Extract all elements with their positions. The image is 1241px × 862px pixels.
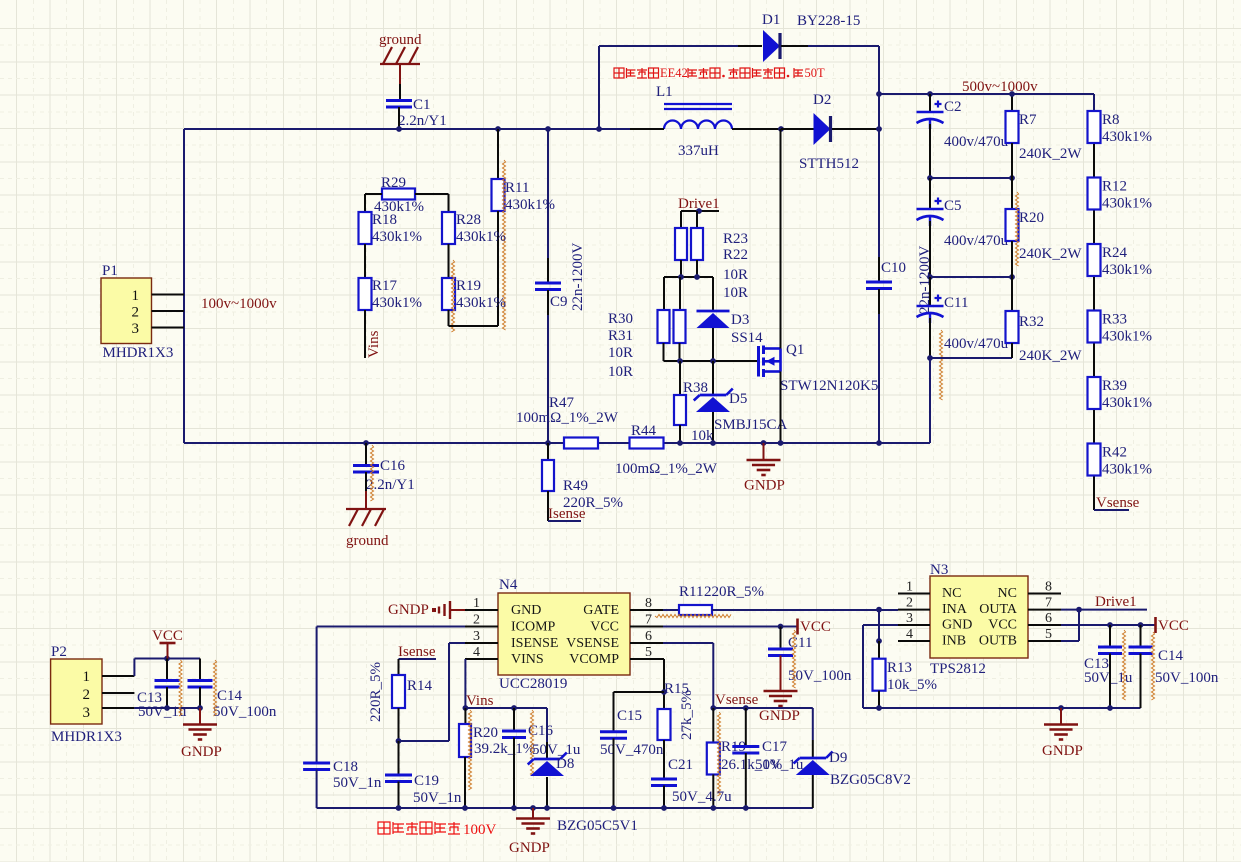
svg-text:1: 1	[473, 596, 480, 611]
svg-text:10R: 10R	[608, 345, 633, 361]
wire 500v bus	[879, 93, 1094, 95]
junction	[1009, 175, 1015, 181]
svg-text:R17: R17	[372, 278, 398, 294]
wire R7 top stub	[1011, 94, 1013, 111]
wire C1 bottom stem	[398, 107, 400, 129]
error squiggle	[717, 712, 720, 796]
resistor R11 (ladder)	[492, 179, 505, 211]
wire tie C5-R20	[930, 276, 1012, 278]
wire GNDP stem switch	[763, 443, 765, 460]
svg-text:GNDP: GNDP	[759, 708, 800, 724]
wire R24 to next	[1093, 277, 1095, 311]
junction	[661, 805, 667, 811]
svg-text:C11: C11	[788, 635, 812, 651]
wire N3 VCC rail	[1061, 624, 1155, 626]
resistor R13	[873, 659, 886, 691]
wire GNDP stem P2	[199, 708, 201, 724]
resistor R23	[675, 228, 687, 260]
capacitor C13 (P2)	[155, 681, 180, 688]
svg-text:R8: R8	[1102, 112, 1120, 128]
wire R11 top stem	[497, 129, 499, 179]
svg-text:Vsense: Vsense	[1096, 495, 1140, 511]
wire D1 to output riser	[808, 45, 879, 47]
svg-text:VCC: VCC	[152, 628, 183, 644]
capacitor C15	[600, 732, 627, 739]
wire R7 bottom stub	[1011, 143, 1013, 178]
error squiggle	[1151, 632, 1154, 700]
junction	[927, 355, 933, 361]
capacitor C16	[353, 466, 379, 473]
wire ICOMP run	[317, 626, 465, 628]
svg-text:ISENSE: ISENSE	[511, 636, 558, 651]
diode D5 TVS	[694, 389, 733, 413]
pin N3.8	[1028, 593, 1061, 595]
capacitor C10	[866, 282, 892, 289]
wire C11 bottom stem	[929, 318, 931, 358]
wire net input top bus	[184, 128, 630, 130]
svg-text:R7: R7	[1019, 112, 1037, 128]
pin P1.2	[152, 310, 185, 312]
ground symbol top	[380, 47, 420, 64]
resistor R17	[359, 278, 372, 310]
junction	[710, 440, 716, 446]
svg-text:2.2n/Y1: 2.2n/Y1	[398, 113, 447, 129]
wire INA-INB tie	[878, 610, 880, 641]
wire GNDP stem N3	[1060, 708, 1062, 724]
wire column return	[929, 358, 931, 443]
wire C14 bottom stem	[199, 687, 201, 708]
wire R22 bottom stub	[696, 260, 698, 277]
svg-text:Vins: Vins	[466, 693, 494, 709]
svg-text:430k1%: 430k1%	[1102, 262, 1152, 278]
error squiggle	[502, 160, 505, 330]
svg-text:GND: GND	[942, 618, 972, 633]
ground GNDP switch	[747, 460, 781, 475]
wire VSENSE run	[663, 642, 713, 644]
svg-text:R12: R12	[1102, 179, 1127, 195]
svg-text:VCC: VCC	[800, 619, 831, 635]
svg-text:50V_100n: 50V_100n	[788, 668, 852, 684]
wire GNDP stem bottom	[532, 808, 534, 818]
wire Vsense stub right	[1094, 509, 1129, 511]
svg-text:50V_470n: 50V_470n	[600, 742, 664, 758]
note text chinese top	[614, 66, 825, 80]
svg-text:R31: R31	[608, 328, 633, 344]
svg-text:C21: C21	[668, 757, 693, 773]
wire ground stem red bottom	[365, 491, 367, 509]
wire P2.1 riser	[133, 659, 135, 677]
wire D5 bottom stub	[712, 412, 714, 443]
svg-text:C14: C14	[217, 688, 243, 704]
error squiggle	[179, 660, 182, 716]
svg-text:4: 4	[906, 627, 913, 642]
svg-text:1: 1	[906, 580, 913, 595]
svg-text:GNDP: GNDP	[181, 744, 222, 760]
resistor R47	[564, 438, 598, 449]
svg-text:NC: NC	[942, 586, 961, 601]
svg-text:R30: R30	[608, 311, 633, 327]
error squiggle	[530, 710, 533, 776]
wire D3 top stub	[712, 277, 714, 310]
resistor R20 (Vins)	[459, 724, 471, 757]
resistor R33	[1088, 311, 1101, 343]
pin D2 anode	[781, 128, 814, 130]
junction	[1058, 705, 1064, 711]
wire VSENSE drop	[712, 643, 714, 708]
svg-text:P1: P1	[102, 263, 118, 279]
wire R39 to next	[1093, 410, 1095, 444]
svg-text:EE42: EE42	[660, 66, 688, 80]
svg-text:10R: 10R	[608, 364, 633, 380]
junction	[1076, 607, 1082, 613]
wire ISENSE run	[449, 642, 465, 644]
svg-text:VCOMP: VCOMP	[569, 652, 619, 667]
error squiggle	[451, 260, 454, 332]
svg-text:VCC: VCC	[1158, 618, 1189, 634]
error squiggle	[1015, 192, 1018, 266]
wire R12 to next	[1093, 211, 1095, 245]
op-amp U-N4 UCC28019 body	[498, 593, 630, 675]
wire R42 bottom stub	[1093, 477, 1095, 511]
resistor R14	[392, 675, 405, 708]
pin P1.1	[152, 294, 185, 296]
svg-text:Q1: Q1	[786, 342, 804, 358]
wire R18 top stub	[364, 194, 366, 212]
svg-text:R22: R22	[723, 247, 748, 263]
junction	[778, 624, 784, 630]
wire R14 top stub	[398, 659, 400, 675]
resistor R49	[542, 460, 554, 491]
wire drive mid tie	[664, 276, 713, 278]
svg-text:P2: P2	[51, 644, 67, 660]
wire R20 top stub	[464, 708, 466, 724]
svg-text:TPS2812: TPS2812	[930, 661, 986, 677]
resistor R28	[442, 212, 455, 244]
pin C10 bottom	[878, 289, 880, 314]
wire Drive1 top	[681, 210, 719, 212]
inductor L1 core	[664, 104, 732, 109]
svg-text:100V: 100V	[463, 822, 497, 838]
pin D8 top	[546, 742, 548, 759]
wire tie C11-R32	[930, 357, 1012, 359]
svg-text:337uH: 337uH	[678, 143, 719, 159]
svg-text:C2: C2	[944, 99, 962, 115]
junction	[545, 126, 551, 132]
wire R13 top stub	[878, 641, 880, 659]
wire Isense stub	[548, 520, 581, 522]
svg-text:2: 2	[906, 596, 913, 611]
power VCC bar N4	[796, 619, 799, 635]
svg-text:R29: R29	[381, 175, 406, 191]
resistor R7	[1006, 111, 1019, 143]
svg-text:C5: C5	[944, 198, 962, 214]
svg-text:430k1%: 430k1%	[1102, 196, 1152, 212]
wire R29 left arm	[365, 193, 382, 195]
junction	[530, 805, 536, 811]
wire OUTB run	[1061, 640, 1079, 642]
pin N3.1	[898, 593, 930, 595]
svg-text:100mΩ_1%_2W: 100mΩ_1%_2W	[615, 461, 718, 477]
svg-text:Drive1: Drive1	[1095, 594, 1137, 610]
pin N4.8	[630, 609, 663, 611]
pin D1 anode	[738, 45, 762, 47]
wire R22 top stub	[696, 211, 698, 228]
svg-text:BZG05C5V1: BZG05C5V1	[557, 818, 638, 834]
svg-text:UCC28019: UCC28019	[499, 676, 567, 692]
svg-text:VCC: VCC	[988, 618, 1017, 633]
svg-text:220R_5%: 220R_5%	[704, 584, 764, 600]
svg-text:430k1%: 430k1%	[1102, 329, 1152, 345]
error squiggle	[213, 660, 216, 716]
svg-text:D3: D3	[731, 312, 749, 328]
wire OUTA-OUTB tie	[1078, 610, 1080, 641]
pin N4.4	[465, 658, 498, 660]
svg-text:SMBJ15CA: SMBJ15CA	[714, 417, 788, 433]
pin D1 cathode	[781, 45, 808, 47]
wire C18 drop	[316, 627, 318, 764]
resistor R20 (bleeder)	[1006, 209, 1019, 241]
svg-text:VINS: VINS	[511, 652, 544, 667]
svg-text:OUTA: OUTA	[979, 602, 1018, 617]
capacitor C14 (P2)	[188, 681, 213, 688]
junction	[164, 705, 170, 711]
wire R23 bottom stub	[680, 260, 682, 277]
pin L1 left	[630, 128, 664, 130]
wire R30 top stub	[663, 277, 665, 310]
svg-text:SS14: SS14	[731, 330, 763, 346]
svg-text:400v/470u: 400v/470u	[944, 336, 1009, 352]
svg-text:50V_4.7u: 50V_4.7u	[672, 789, 732, 805]
svg-text:R39: R39	[1102, 378, 1127, 394]
wire C9 bottom run	[547, 315, 549, 443]
svg-text:C19: C19	[414, 773, 439, 789]
pin P1.3	[152, 327, 185, 329]
error squiggle	[468, 710, 471, 790]
wire R8 to next	[1093, 144, 1095, 178]
wire R15-C21	[663, 740, 665, 779]
svg-text:430k1%: 430k1%	[372, 229, 422, 245]
pin N3.5	[1028, 640, 1061, 642]
junction	[710, 358, 716, 364]
wire GATE run left	[663, 609, 679, 611]
error squiggle	[655, 614, 731, 617]
wire N3 ground rail	[863, 707, 1141, 709]
wire Isense stub left	[399, 658, 437, 660]
junction	[694, 274, 700, 280]
svg-text:R11: R11	[505, 180, 529, 196]
wire D1 anode run	[599, 45, 738, 47]
wire R49 top stub	[547, 443, 549, 460]
wire C14b top stem	[1140, 625, 1142, 647]
wire R14 bottom stub	[398, 708, 400, 741]
transistor Q1	[759, 346, 781, 378]
wire R28-R19	[448, 244, 450, 278]
resistor R38	[674, 395, 686, 425]
svg-text:1: 1	[132, 288, 140, 304]
diode D2	[814, 113, 831, 145]
wire output riser upper	[878, 46, 880, 129]
wire R38 top stub	[679, 361, 681, 395]
svg-text:C1: C1	[413, 97, 431, 113]
pin D9 top	[812, 740, 814, 758]
wire R32 bottom stub	[1011, 343, 1013, 358]
resistor R19 (Vsense)	[707, 743, 720, 775]
wire output riser mid	[878, 129, 880, 257]
ground GNDP VCC N4	[764, 691, 798, 706]
svg-text:R18: R18	[372, 212, 397, 228]
wire C13 bottom stem	[166, 687, 168, 708]
svg-text:R49: R49	[563, 478, 588, 494]
wire C5 bottom stem	[929, 221, 931, 277]
junction	[677, 440, 683, 446]
pin P2.1	[102, 675, 134, 677]
error squiggle	[939, 330, 942, 400]
junction	[927, 175, 933, 181]
svg-text:R20: R20	[473, 725, 498, 741]
power VCC bar N3	[1154, 617, 1157, 633]
wire D1 riser	[598, 46, 600, 129]
junction	[778, 440, 784, 446]
resistor R24	[1088, 244, 1101, 276]
svg-text:D8: D8	[556, 756, 574, 772]
diode D8 zener	[528, 753, 567, 777]
svg-text:3: 3	[906, 611, 913, 626]
wire R13 bottom stub	[878, 691, 880, 708]
wire R8 top stub	[1093, 94, 1095, 111]
pin P2.3	[102, 707, 134, 709]
svg-text:430k1%: 430k1%	[456, 295, 506, 311]
svg-text:VCC: VCC	[590, 619, 619, 634]
resistor R22	[691, 228, 703, 260]
capacitor C13 (N3)	[1098, 647, 1122, 654]
wire Drive1 out	[1079, 609, 1147, 611]
svg-text:GND: GND	[511, 603, 541, 618]
svg-text:N3: N3	[930, 562, 948, 578]
resistor R18	[359, 212, 372, 244]
svg-text:3: 3	[132, 321, 140, 337]
junction	[462, 805, 468, 811]
pin C9 bottom	[547, 290, 549, 315]
svg-text:BZG05C8V2: BZG05C8V2	[830, 772, 911, 788]
svg-text:240K_2W: 240K_2W	[1019, 146, 1082, 162]
svg-text:400v/470u: 400v/470u	[944, 134, 1009, 150]
capacitor C11 (VCC)	[768, 649, 793, 656]
junction	[876, 91, 882, 97]
svg-text:430k1%: 430k1%	[1102, 129, 1152, 145]
svg-text:C9: C9	[550, 294, 568, 310]
resistor R32	[1006, 311, 1019, 343]
junction	[1138, 622, 1144, 628]
wire GATE run right	[712, 609, 898, 611]
wire R20 bottom stub	[464, 757, 466, 808]
svg-text:5: 5	[1045, 627, 1052, 642]
resistor R19 (ladder)	[442, 278, 455, 310]
wire Vsense rail	[713, 707, 813, 709]
wire R38 bottom stub	[679, 425, 681, 443]
wire VCOMP corner	[663, 658, 664, 660]
svg-text:7: 7	[1045, 596, 1052, 611]
wire N3 GND run	[863, 624, 898, 626]
resistor R39	[1088, 377, 1101, 409]
pin N3.7	[1028, 609, 1061, 611]
wire R19 bottom stub	[712, 775, 714, 809]
junction	[164, 656, 170, 662]
junction	[197, 705, 203, 711]
pin N4.3	[465, 642, 498, 644]
diode D3	[697, 311, 730, 328]
wire VCC run N4	[663, 626, 797, 628]
svg-text:C14: C14	[1158, 648, 1184, 664]
wire R31 top stub	[679, 277, 681, 310]
svg-text:Isense: Isense	[548, 506, 586, 522]
svg-text:240K_2W: 240K_2W	[1019, 246, 1082, 262]
wire C2 bottom stem	[929, 124, 931, 178]
pin N3.3	[898, 624, 930, 626]
svg-text:INB: INB	[942, 634, 966, 649]
svg-text:22n-1200V: 22n-1200V	[570, 243, 586, 311]
wire R49 bottom stub	[547, 491, 549, 521]
wire R20 top stub	[1011, 178, 1013, 209]
wire C15 tie	[614, 691, 665, 693]
svg-text:D2: D2	[813, 92, 831, 108]
capacitor C14 (N3)	[1129, 647, 1153, 654]
svg-text:R32: R32	[1019, 314, 1044, 330]
junction	[463, 705, 469, 711]
wire VCC top rail P2	[134, 658, 200, 660]
svg-text:C16: C16	[380, 458, 406, 474]
svg-text:10R: 10R	[723, 267, 748, 283]
wire tie C2-R7	[930, 177, 1012, 179]
junction	[778, 126, 784, 132]
svg-text:8: 8	[645, 596, 652, 611]
wire R28 top stub	[448, 194, 450, 212]
svg-text:N4: N4	[499, 577, 518, 593]
junction	[743, 705, 749, 711]
wire ground stem red	[399, 64, 401, 84]
svg-text:R19: R19	[456, 278, 481, 294]
svg-text:6: 6	[1045, 611, 1052, 626]
op-amp U-N3 TPS2812 body	[930, 576, 1028, 658]
wire VCC stem P2	[167, 643, 169, 659]
svg-text:STW12N120K5: STW12N120K5	[780, 378, 878, 394]
wire analog ground rail	[317, 807, 813, 809]
junction	[761, 440, 767, 446]
svg-text:R23: R23	[723, 231, 748, 247]
svg-text:430k1%: 430k1%	[1102, 462, 1152, 478]
svg-text:ground: ground	[379, 32, 422, 48]
wire C19 top stem	[398, 741, 400, 775]
resistor R11 (gate)	[679, 605, 712, 615]
junction	[363, 440, 369, 446]
svg-text:50T: 50T	[805, 66, 826, 80]
pin L1 right	[732, 128, 781, 130]
svg-text:10k_5%: 10k_5%	[887, 677, 937, 693]
svg-text:Isense: Isense	[398, 644, 436, 660]
note text chinese bottom	[378, 822, 497, 838]
svg-text:3: 3	[473, 629, 480, 644]
junction	[495, 126, 501, 132]
wire C15 top stem	[613, 692, 615, 732]
svg-text:STTH512: STTH512	[799, 156, 859, 172]
svg-text:C10: C10	[881, 260, 906, 276]
svg-text:GNDP: GNDP	[1042, 743, 1083, 759]
svg-text:500v~1000v: 500v~1000v	[962, 79, 1038, 95]
svg-text:C17: C17	[762, 739, 788, 755]
svg-text:INA: INA	[942, 602, 968, 617]
wire R11 bottom run	[497, 211, 499, 326]
capacitor C19	[385, 775, 412, 782]
junction	[511, 805, 517, 811]
